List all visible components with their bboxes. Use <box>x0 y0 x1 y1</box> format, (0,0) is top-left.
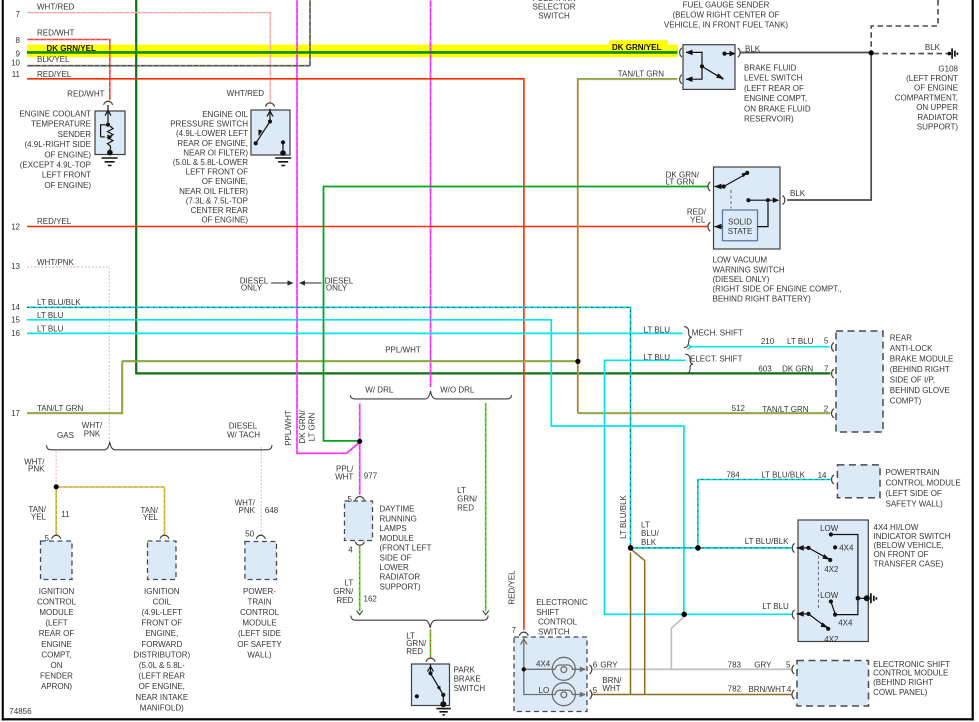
svg-text:POWER-: POWER- <box>243 587 276 596</box>
svg-text:SIDE OF: SIDE OF <box>380 553 412 562</box>
svg-text:IGNITION: IGNITION <box>39 587 75 596</box>
svg-text:SHIFT: SHIFT <box>536 608 559 617</box>
svg-text:RED/WHT: RED/WHT <box>37 29 74 38</box>
svg-text:LT BLU: LT BLU <box>762 602 789 611</box>
svg-text:162: 162 <box>364 595 378 604</box>
svg-text:IGNITION: IGNITION <box>144 587 180 596</box>
svg-text:7: 7 <box>16 10 21 19</box>
svg-text:LT BLU: LT BLU <box>787 337 814 346</box>
svg-text:YEL: YEL <box>143 513 159 522</box>
svg-text:ELECTRONIC SHIFT: ELECTRONIC SHIFT <box>873 660 950 669</box>
svg-text:FUEL GAUGE SENDER: FUEL GAUGE SENDER <box>683 1 770 10</box>
svg-text:OF ENGINE): OF ENGINE) <box>44 150 91 159</box>
svg-text:MECH. SHIFT: MECH. SHIFT <box>692 328 743 337</box>
svg-text:LT: LT <box>641 521 650 530</box>
svg-text:ONLY: ONLY <box>241 284 263 293</box>
svg-text:50: 50 <box>245 529 254 538</box>
svg-text:LT BLU: LT BLU <box>37 324 64 333</box>
svg-text:PRESSURE SWITCH: PRESSURE SWITCH <box>170 120 248 129</box>
svg-text:(RIGHT SIDE OF ENGINE COMPT.,: (RIGHT SIDE OF ENGINE COMPT., <box>713 285 842 294</box>
svg-text:COMPT,: COMPT, <box>41 650 71 659</box>
svg-text:977: 977 <box>364 472 378 481</box>
svg-text:4: 4 <box>348 545 353 554</box>
svg-text:14: 14 <box>11 303 20 312</box>
svg-text:RED/YEL: RED/YEL <box>508 570 517 605</box>
svg-text:(LEFT REAR OF: (LEFT REAR OF <box>744 84 804 93</box>
svg-text:RED: RED <box>457 503 474 512</box>
svg-text:4X2: 4X2 <box>824 565 839 574</box>
svg-text:WALL): WALL) <box>247 650 271 659</box>
svg-text:12: 12 <box>11 223 20 232</box>
svg-text:5: 5 <box>348 495 353 504</box>
svg-text:16: 16 <box>11 329 20 338</box>
svg-text:RESERVOIR): RESERVOIR) <box>744 115 794 124</box>
svg-text:ENGINE OIL: ENGINE OIL <box>202 110 248 119</box>
svg-text:ON BRAKE FLUID: ON BRAKE FLUID <box>744 104 811 113</box>
svg-text:RED/YEL: RED/YEL <box>37 217 72 226</box>
svg-text:NEAR OIL FILTER): NEAR OIL FILTER) <box>179 187 248 196</box>
svg-text:11: 11 <box>12 70 21 79</box>
svg-text:WHT/: WHT/ <box>82 421 103 430</box>
svg-text:LT BLU: LT BLU <box>644 325 671 334</box>
svg-text:ANTI-LOCK: ANTI-LOCK <box>890 344 933 353</box>
svg-text:(7.3L & 7.5L-TOP: (7.3L & 7.5L-TOP <box>186 196 248 205</box>
svg-text:783: 783 <box>728 660 742 669</box>
svg-text:ON UPPER: ON UPPER <box>916 103 958 112</box>
svg-text:LT GRN: LT GRN <box>308 412 317 441</box>
svg-text:CONTROL MODULE: CONTROL MODULE <box>886 478 961 487</box>
svg-text:ON: ON <box>51 661 63 670</box>
svg-text:SUPPORT): SUPPORT) <box>917 123 959 132</box>
svg-text:ON FRONT OF: ON FRONT OF <box>874 550 929 559</box>
svg-text:LT BLU/BLK: LT BLU/BLK <box>745 537 789 546</box>
svg-text:TRAIN: TRAIN <box>248 597 272 606</box>
svg-text:YEL: YEL <box>690 215 706 224</box>
svg-text:(LEFT SIDE: (LEFT SIDE <box>238 629 281 638</box>
svg-text:CONTROL: CONTROL <box>37 597 77 606</box>
svg-text:WHT: WHT <box>335 472 353 481</box>
svg-text:603: 603 <box>758 365 772 374</box>
svg-text:5: 5 <box>786 660 791 669</box>
svg-text:(FRONT LEFT: (FRONT LEFT <box>380 543 432 552</box>
svg-text:4X4 HI/LOW: 4X4 HI/LOW <box>874 523 919 532</box>
svg-text:FORWARD: FORWARD <box>141 640 182 649</box>
svg-text:GRN/: GRN/ <box>333 587 354 596</box>
svg-text:TAN/LT GRN: TAN/LT GRN <box>618 69 664 78</box>
svg-text:PNK: PNK <box>84 430 101 439</box>
svg-text:SOLID: SOLID <box>728 218 752 227</box>
svg-text:APRON): APRON) <box>41 682 72 691</box>
svg-text:WHT/PNK: WHT/PNK <box>37 258 75 267</box>
svg-text:LOWER: LOWER <box>380 563 410 572</box>
svg-text:DAYTIME: DAYTIME <box>380 505 415 514</box>
svg-text:DISTRIBUTOR): DISTRIBUTOR) <box>133 650 190 659</box>
svg-text:LT BLU/BLK: LT BLU/BLK <box>761 471 805 480</box>
svg-text:ONLY: ONLY <box>326 284 348 293</box>
svg-text:TAN/LT GRN: TAN/LT GRN <box>37 404 83 413</box>
svg-text:5: 5 <box>44 534 49 543</box>
svg-text:LOW: LOW <box>820 591 839 600</box>
svg-text:BLK: BLK <box>745 45 761 54</box>
svg-text:4X4: 4X4 <box>839 544 854 553</box>
svg-text:RED: RED <box>336 596 353 605</box>
svg-text:BRAKE FLUID: BRAKE FLUID <box>744 64 797 73</box>
svg-text:RADIATOR: RADIATOR <box>917 113 958 122</box>
svg-text:RUNNING: RUNNING <box>380 514 417 523</box>
svg-text:RED: RED <box>406 647 423 656</box>
svg-text:7: 7 <box>512 626 517 635</box>
svg-text:BLK/YEL: BLK/YEL <box>37 55 70 64</box>
svg-text:MANIFOLD): MANIFOLD) <box>140 703 184 712</box>
svg-text:OF ENGINE,: OF ENGINE, <box>202 177 248 186</box>
svg-text:COWL PANEL): COWL PANEL) <box>873 688 928 697</box>
svg-text:ENGINE,: ENGINE, <box>145 629 178 638</box>
svg-text:MODULE: MODULE <box>380 534 414 543</box>
svg-text:(LEFT SIDE OF: (LEFT SIDE OF <box>886 489 942 498</box>
svg-text:RED/YEL: RED/YEL <box>37 70 72 79</box>
svg-text:LOW VACUUM: LOW VACUUM <box>713 256 768 265</box>
svg-text:COIL: COIL <box>152 597 171 606</box>
svg-text:784: 784 <box>726 471 740 480</box>
svg-text:PNK: PNK <box>239 506 256 515</box>
svg-text:SUPPORT): SUPPORT) <box>380 582 422 591</box>
svg-text:TRANSFER CASE): TRANSFER CASE) <box>874 559 944 568</box>
svg-text:15: 15 <box>11 316 20 325</box>
svg-text:GAS: GAS <box>57 431 74 440</box>
svg-text:(5.0L & 5.8L-: (5.0L & 5.8L- <box>139 661 185 670</box>
svg-text:ENGINE: ENGINE <box>41 640 72 649</box>
svg-text:(BELOW RIGHT CENTER OF: (BELOW RIGHT CENTER OF <box>673 11 780 20</box>
svg-text:WHT/RED: WHT/RED <box>37 2 75 11</box>
svg-text:(EXCEPT 4.9L-TOP: (EXCEPT 4.9L-TOP <box>20 161 91 170</box>
svg-text:W/ DRL: W/ DRL <box>365 385 394 394</box>
svg-text:SAFETY WALL): SAFETY WALL) <box>886 499 944 508</box>
svg-text:OF ENGINE): OF ENGINE) <box>201 216 248 225</box>
svg-text:BLU/: BLU/ <box>641 529 660 538</box>
svg-text:LT BLU/BLK: LT BLU/BLK <box>619 494 628 538</box>
svg-text:LAMPS: LAMPS <box>380 524 407 533</box>
svg-text:G108: G108 <box>938 64 958 73</box>
svg-text:4X4: 4X4 <box>536 659 551 668</box>
svg-text:TAN/LT GRN: TAN/LT GRN <box>762 405 808 414</box>
svg-text:PNK: PNK <box>28 464 45 473</box>
svg-text:WHT: WHT <box>602 684 620 693</box>
svg-text:ENGINE COOLANT: ENGINE COOLANT <box>19 110 91 119</box>
svg-text:WHT/RED: WHT/RED <box>227 89 265 98</box>
svg-text:LT: LT <box>457 486 466 495</box>
svg-text:LEFT FRONT OF: LEFT FRONT OF <box>186 168 248 177</box>
svg-text:11: 11 <box>61 510 70 519</box>
svg-text:LT: LT <box>345 579 354 588</box>
svg-text:BRAKE: BRAKE <box>454 675 481 684</box>
svg-text:STATE: STATE <box>728 227 753 236</box>
svg-text:210: 210 <box>761 337 775 346</box>
svg-text:LOW: LOW <box>820 524 839 533</box>
svg-text:BEHIND RIGHT BATTERY): BEHIND RIGHT BATTERY) <box>713 294 812 303</box>
svg-text:PPL/WHT: PPL/WHT <box>385 346 421 355</box>
svg-text:FENDER: FENDER <box>40 672 73 681</box>
svg-text:512: 512 <box>732 404 746 413</box>
svg-text:17: 17 <box>11 409 20 418</box>
svg-text:LT BLU: LT BLU <box>644 353 671 362</box>
svg-text:OF ENGINE: OF ENGINE <box>914 84 958 93</box>
svg-text:OF ENGINE,: OF ENGINE, <box>139 682 185 691</box>
svg-text:WARNING SWITCH: WARNING SWITCH <box>713 265 785 274</box>
svg-text:ELECT. SHIFT: ELECT. SHIFT <box>690 354 743 363</box>
svg-text:(DIESEL ONLY): (DIESEL ONLY) <box>713 275 770 284</box>
svg-text:(BEHIND RIGHT: (BEHIND RIGHT <box>890 365 950 374</box>
svg-text:GRY: GRY <box>600 660 618 669</box>
svg-text:PARK: PARK <box>454 665 476 674</box>
svg-text:(LEFT REAR: (LEFT REAR <box>139 672 186 681</box>
svg-text:(4.9L-LOWER LEFT: (4.9L-LOWER LEFT <box>176 129 248 138</box>
svg-text:PPL/WHT: PPL/WHT <box>284 410 293 446</box>
svg-text:LT GRN: LT GRN <box>666 178 695 187</box>
svg-text:BEHIND GLOVE: BEHIND GLOVE <box>890 386 950 395</box>
svg-text:SENDER: SENDER <box>58 130 92 139</box>
svg-text:BRAKE MODULE: BRAKE MODULE <box>890 355 954 364</box>
svg-text:LEVEL SWITCH: LEVEL SWITCH <box>744 74 803 83</box>
svg-text:(BEHIND RIGHT: (BEHIND RIGHT <box>873 678 933 687</box>
svg-text:(5.0L & 5.8L-LOWER: (5.0L & 5.8L-LOWER <box>173 158 249 167</box>
svg-text:RED/WHT: RED/WHT <box>67 89 104 98</box>
svg-text:5: 5 <box>824 337 829 346</box>
svg-text:NEAR OI FILTER): NEAR OI FILTER) <box>183 148 248 157</box>
svg-text:POWERTRAIN: POWERTRAIN <box>886 468 940 477</box>
svg-text:INDICATOR SWITCH: INDICATOR SWITCH <box>874 532 951 541</box>
svg-text:MODULE: MODULE <box>39 608 73 617</box>
svg-text:MODULE: MODULE <box>242 619 276 628</box>
svg-text:TEMPERATURE: TEMPERATURE <box>31 120 91 129</box>
svg-text:8: 8 <box>16 36 21 45</box>
svg-text:BRN/WHT: BRN/WHT <box>748 685 785 694</box>
svg-text:(4.9L-RIGHT SIDE: (4.9L-RIGHT SIDE <box>24 140 91 149</box>
svg-text:COMPARTMENT,: COMPARTMENT, <box>895 93 958 102</box>
svg-text:DK GRN/YEL: DK GRN/YEL <box>612 43 661 52</box>
svg-text:74856: 74856 <box>9 707 32 716</box>
svg-text:(LEFT: (LEFT <box>45 619 67 628</box>
svg-text:COMPT): COMPT) <box>890 396 922 405</box>
svg-text:4X2: 4X2 <box>824 635 839 644</box>
svg-text:DK GRN/: DK GRN/ <box>298 410 307 444</box>
svg-text:GRN/: GRN/ <box>457 495 478 504</box>
svg-text:(LEFT FRONT: (LEFT FRONT <box>906 74 958 83</box>
svg-text:13: 13 <box>11 262 20 271</box>
svg-text:REAR: REAR <box>890 334 912 343</box>
svg-text:W/ TACH: W/ TACH <box>227 430 260 439</box>
svg-text:REAR OF: REAR OF <box>39 629 75 638</box>
svg-text:LEFT FRONT: LEFT FRONT <box>42 171 91 180</box>
svg-text:RADIATOR: RADIATOR <box>380 573 421 582</box>
svg-text:14: 14 <box>818 471 827 480</box>
svg-text:W/O DRL: W/O DRL <box>440 385 475 394</box>
svg-text:DK GRN/YEL: DK GRN/YEL <box>47 44 96 53</box>
svg-text:4: 4 <box>787 685 792 694</box>
svg-text:FRONT OF: FRONT OF <box>141 619 182 628</box>
svg-text:CONTROL: CONTROL <box>240 608 280 617</box>
svg-text:BLK: BLK <box>925 43 941 52</box>
svg-text:4X4: 4X4 <box>838 618 853 627</box>
svg-text:SWITCH: SWITCH <box>538 627 570 636</box>
svg-text:BLK: BLK <box>790 189 806 198</box>
svg-text:OF ENGINE): OF ENGINE) <box>44 181 91 190</box>
svg-text:CONTROL MODULE: CONTROL MODULE <box>873 669 948 678</box>
svg-text:SWITCH: SWITCH <box>454 684 486 693</box>
svg-text:7: 7 <box>824 364 829 373</box>
svg-text:REAR OF ENGINE,: REAR OF ENGINE, <box>177 139 248 148</box>
svg-text:CONTROL: CONTROL <box>538 618 578 627</box>
svg-text:GRY: GRY <box>754 661 772 670</box>
svg-text:(4.9L-LEFT: (4.9L-LEFT <box>142 608 183 617</box>
svg-text:VEHICLE, IN FRONT FUEL TANK): VEHICLE, IN FRONT FUEL TANK) <box>664 20 789 29</box>
svg-text:2: 2 <box>824 404 829 413</box>
svg-text:ENGINE COMPT,: ENGINE COMPT, <box>744 94 807 103</box>
svg-text:648: 648 <box>265 506 279 515</box>
svg-text:NEAR INTAKE: NEAR INTAKE <box>135 693 188 702</box>
svg-text:SELECTOR: SELECTOR <box>533 2 576 11</box>
svg-text:ELECTRONIC: ELECTRONIC <box>536 598 588 607</box>
svg-text:DK GRN: DK GRN <box>782 365 813 374</box>
svg-text:9: 9 <box>16 50 21 59</box>
svg-text:LT BLU: LT BLU <box>37 311 64 320</box>
svg-text:LT BLU/BLK: LT BLU/BLK <box>37 298 81 307</box>
svg-text:OF SAFETY: OF SAFETY <box>237 640 282 649</box>
svg-text:CENTER REAR: CENTER REAR <box>191 206 249 215</box>
svg-text:SWITCH: SWITCH <box>538 11 570 20</box>
svg-text:6: 6 <box>593 660 598 669</box>
svg-text:10: 10 <box>11 59 20 68</box>
svg-text:782: 782 <box>728 685 742 694</box>
svg-text:LO: LO <box>539 686 550 695</box>
svg-text:BLK: BLK <box>641 538 657 547</box>
svg-text:YEL: YEL <box>31 512 47 521</box>
svg-text:SIDE OF I/P,: SIDE OF I/P, <box>890 375 935 384</box>
svg-text:5: 5 <box>593 686 598 695</box>
svg-text:(BELOW VEHICLE,: (BELOW VEHICLE, <box>874 541 944 550</box>
